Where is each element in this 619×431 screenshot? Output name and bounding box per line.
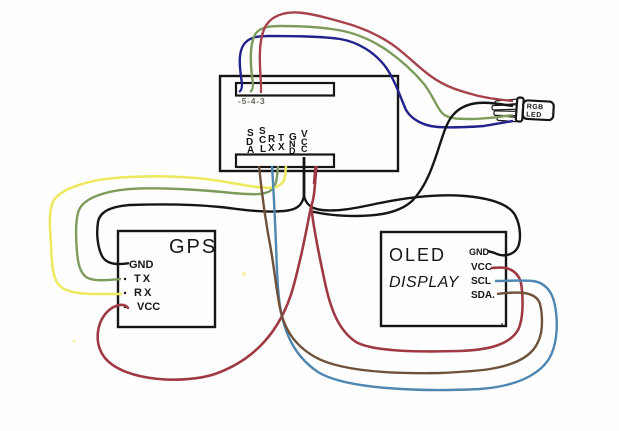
- svg-text:C: C: [301, 144, 308, 154]
- header J1 (top pin bar): [236, 83, 334, 96]
- svg-text:VCC: VCC: [137, 301, 160, 313]
- wire blue stub at top header pin 5: [239, 84, 242, 92]
- GPS VCC node dot: [124, 306, 126, 308]
- stray yellow dot: [242, 272, 246, 276]
- GPS TX node dot: [124, 278, 126, 280]
- wire green GPS TX: [76, 166, 278, 280]
- svg-text:GPS: GPS: [169, 236, 217, 258]
- wire blue (board pin 5 to RGB LED blue lead): [240, 36, 513, 127]
- wire black GND right branch to OLED GND: [304, 195, 520, 255]
- wire red stub at top header pin 3: [260, 84, 262, 93]
- board U1 (microcontroller) outline: [220, 76, 398, 171]
- wire steel-blue OLED SCL: [272, 166, 557, 390]
- svg-text:DISPLAY: DISPLAY: [389, 274, 460, 291]
- OLED display module box: [381, 232, 506, 326]
- wire yellow GPS RX: [50, 166, 286, 294]
- svg-text:LED: LED: [526, 111, 542, 119]
- svg-text:X: X: [268, 143, 275, 154]
- wire black RGB LED cathode (to GND net): [310, 103, 513, 216]
- svg-text:-5-4-3: -5-4-3: [238, 96, 265, 106]
- RGB LED D1 leads (hollow): [495, 99, 518, 105]
- svg-text:RX: RX: [134, 287, 153, 299]
- svg-text:OLED: OLED: [389, 245, 446, 265]
- svg-text:GND: GND: [129, 259, 154, 271]
- svg-text:VCC: VCC: [471, 262, 492, 273]
- wire green (board pin 4 to RGB LED green lead): [251, 26, 513, 119]
- RGB LED D1 flange: [516, 97, 524, 121]
- wire red (board pin 3 to RGB LED red lead): [260, 12, 513, 101]
- wire brown OLED SDA: [259, 166, 542, 373]
- wire crimson OLED VCC: [311, 205, 523, 351]
- svg-text:GND: GND: [469, 247, 490, 257]
- svg-text:SCL: SCL: [471, 276, 491, 287]
- wire crimson GPS VCC: [98, 166, 316, 380]
- svg-text:A: A: [247, 145, 254, 156]
- svg-text:TX: TX: [134, 273, 152, 285]
- wire crimson VCC stub at header: [315, 166, 317, 184]
- svg-text:D: D: [289, 146, 296, 156]
- header J2 (bottom pin bar): [236, 155, 334, 168]
- svg-text:X: X: [278, 142, 285, 153]
- wire green stub at top header pin 4: [250, 84, 253, 92]
- stray dot left: [73, 340, 76, 343]
- wire black GND stem from board GND pin: [303, 157, 306, 196]
- stray dot at OLED corner: [501, 323, 503, 325]
- wire black GND left branch to GPS GND: [97, 196, 304, 264]
- GPS RX node dot: [124, 292, 126, 294]
- GPS module box: [118, 231, 215, 327]
- svg-text:SDA.: SDA.: [471, 290, 495, 301]
- svg-text:L: L: [260, 144, 266, 155]
- RGB LED D1 body: [523, 100, 554, 120]
- svg-text:RGB: RGB: [526, 103, 543, 111]
